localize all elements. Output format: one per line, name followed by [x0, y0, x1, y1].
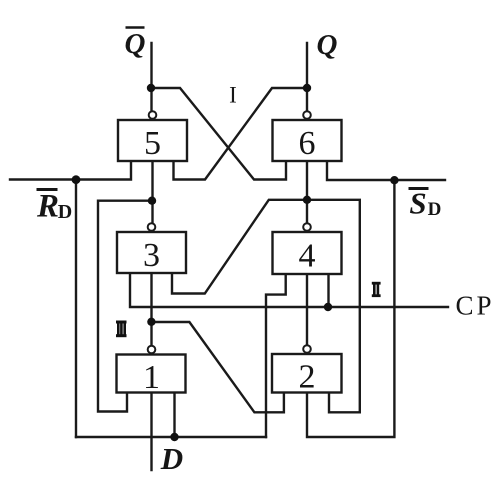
svg-text:5: 5	[144, 125, 161, 162]
node junction bottom rail	[170, 433, 178, 441]
svg-text:R: R	[36, 189, 59, 225]
gate 2	[272, 345, 342, 395]
wire Sd rail to gate2 center input	[307, 180, 394, 437]
wire Rd rail to gate4 left input	[266, 274, 286, 438]
svg-text:4: 4	[299, 238, 316, 275]
gate 6	[273, 111, 342, 162]
gate 3	[117, 223, 186, 274]
wire gate4 output branch to gate3 right input	[172, 200, 307, 294]
wire gate2 output to gate4 input	[306, 274, 308, 345]
wire gate1 right foot to bottom rail	[173, 393, 175, 438]
wire Q output lead	[306, 43, 308, 112]
svg-text:3: 3	[143, 237, 160, 274]
node junction below gate6	[303, 196, 311, 204]
node label Qbar	[125, 28, 146, 61]
wire cross-couple Qbar to gate6 input	[152, 88, 287, 180]
wire Rd rail down left side	[75, 180, 77, 438]
gate 1	[117, 346, 186, 396]
node junction below gate3	[147, 318, 155, 326]
wire Sd input line from gate6	[327, 162, 445, 181]
svg-text:D: D	[58, 201, 72, 223]
node label Sd	[409, 186, 442, 221]
wire gate4 output to gate6 input	[306, 162, 308, 224]
wire gate3 output to gate5 input	[151, 162, 153, 224]
wire gate1 output branch to gate2 left input	[151, 322, 284, 412]
wire gate1 output to gate3 input	[150, 273, 152, 346]
svg-text:CP: CP	[455, 291, 494, 321]
svg-text:D: D	[428, 199, 442, 220]
svg-text:S: S	[409, 186, 426, 221]
wire gate4 right foot to CP	[327, 274, 329, 308]
wire cross-couple Q to gate5 input	[174, 88, 308, 180]
svg-text:D: D	[160, 441, 183, 476]
wire Qbar output lead	[150, 43, 152, 112]
svg-text:2: 2	[299, 359, 316, 396]
wire D input lead	[150, 393, 152, 471]
node label III latch	[116, 321, 127, 338]
wire Rd input line to gate5	[10, 162, 131, 180]
node junction on Q	[303, 84, 311, 92]
gate 4	[273, 223, 342, 274]
svg-text:Q: Q	[317, 29, 338, 61]
wire bottom rail	[76, 436, 266, 438]
gate 5	[118, 111, 187, 162]
node label II latch	[372, 282, 381, 297]
svg-text:I: I	[229, 83, 237, 108]
node junction below gate5	[148, 197, 156, 205]
svg-text:6: 6	[299, 125, 316, 162]
node junction on Qbar	[147, 84, 155, 92]
svg-text:Q: Q	[125, 28, 146, 60]
wire CP line	[130, 273, 448, 307]
wire gate4 output branch to gate2 right input	[307, 200, 360, 412]
wire gate3 output branch to gate1 input	[98, 201, 152, 412]
node junction CP gate4	[324, 303, 332, 311]
node junction Rd	[72, 175, 81, 184]
node label Rd	[36, 189, 72, 225]
svg-text:1: 1	[143, 359, 160, 396]
node junction Sd	[390, 176, 398, 184]
